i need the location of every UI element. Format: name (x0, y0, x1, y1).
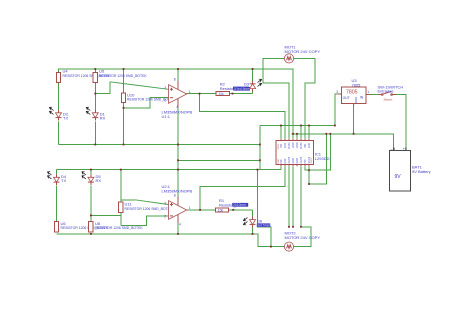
svg-text:IN2: IN2 (304, 144, 307, 149)
wire rail to D5 (90, 170, 92, 177)
wire node to op-amp U2 inverting input (121, 216, 169, 226)
wire D6 cathode to bottom rail (252, 227, 254, 234)
resistor R6 (54, 221, 109, 232)
svg-text:IN1: IN1 (280, 144, 283, 149)
wire R11 bottom column (120, 212, 122, 225)
LED D1 RX (86, 107, 105, 120)
svg-text:GND: GND (354, 97, 358, 103)
svg-text:1: 1 (367, 90, 369, 94)
svg-text:OUT: OUT (343, 96, 350, 100)
wire op-amp U1 V+ pin to rail (177, 69, 179, 81)
wire op-amp U2 V- down (177, 219, 179, 234)
svg-text:2: 2 (164, 214, 166, 218)
svg-text:Entradas: Entradas (378, 88, 394, 93)
svg-text:7805: 7805 (352, 82, 362, 87)
svg-text:U11: U11 (125, 201, 133, 206)
junction dots chip bottom (288, 169, 310, 227)
wire D5 to R8 (90, 185, 92, 221)
svg-text:U6: U6 (61, 221, 67, 226)
wire op-amp U2 output to D6 (187, 209, 253, 211)
svg-text:10k: 10k (219, 92, 225, 96)
svg-text:RESISTOR 1206 SMD_BOTEK: RESISTOR 1206 SMD_BOTEK (125, 207, 173, 211)
wire ground rail 2 (59, 144, 260, 146)
wire lower section top rail (57, 169, 282, 171)
wire D4 to R6 (56, 185, 58, 221)
svg-text:3: 3 (164, 201, 166, 205)
battery BAT1 9V (390, 147, 431, 191)
wire chip bottom left pin to left rail (280, 167, 282, 170)
wire R10 node to op-amp inverting input (124, 98, 169, 108)
svg-text:VCC1: VCC1 (278, 143, 280, 150)
svg-text:RESISTOR 1206 SMD_BOTEK: RESISTOR 1206 SMD_BOTEK (99, 74, 147, 78)
svg-text:2010mm: 2010mm (233, 203, 246, 207)
svg-text:led 5mm: led 5mm (237, 87, 250, 91)
wire MOT2 right staircase (294, 167, 312, 247)
junction dots op-amp U2 output (199, 209, 234, 211)
junction dots VCC bus (280, 125, 310, 127)
LED D5 RX (82, 172, 101, 185)
junction dots bottom rail (90, 233, 272, 248)
LED D4 TX (48, 172, 67, 185)
resistor R2 (216, 82, 249, 96)
svg-text:GND: GND (278, 159, 280, 164)
svg-text:VCC2: VCC2 (311, 157, 313, 164)
svg-text:OUT1: OUT1 (288, 142, 291, 149)
op-amp U1:1 (162, 78, 193, 119)
svg-text:TX: TX (61, 178, 66, 183)
svg-text:1: 1 (189, 206, 191, 210)
switch SW-1 (378, 84, 404, 101)
motor MOT2 (284, 230, 320, 251)
wire bottom rail (57, 234, 285, 247)
wire D3 cathode (252, 89, 254, 94)
svg-text:OUT3: OUT3 (300, 156, 303, 163)
svg-text:2: 2 (164, 99, 166, 103)
wire GND bus (292, 134, 394, 151)
svg-text:IN3: IN3 (304, 159, 307, 164)
wire switch to battery plus (396, 95, 406, 151)
svg-text:3: 3 (164, 86, 166, 90)
wire chip pin bottom center 2 (292, 167, 294, 227)
svg-text:OUT2: OUT2 (300, 142, 303, 149)
wire D3 anode to rail (252, 69, 254, 84)
resistor R1 (215, 198, 248, 212)
svg-text:RESISTOR 1206 SMD_BOTEK: RESISTOR 1206 SMD_BOTEK (127, 98, 175, 102)
svg-text:GND: GND (292, 142, 295, 148)
wire D1 to lower rail (94, 122, 96, 145)
resistor R5 (93, 69, 147, 83)
wire R4 to D2 (58, 83, 60, 113)
wire vertical to chip left (259, 126, 261, 170)
svg-text:MOTOR 24V COPY: MOTOR 24V COPY (285, 49, 321, 54)
LED D2 TX (50, 107, 69, 120)
svg-text:U1:1: U1:1 (162, 114, 171, 119)
svg-text:U8: U8 (95, 221, 101, 226)
svg-text:3: 3 (336, 90, 338, 94)
wire chip bottom pin loop outer (305, 134, 330, 170)
wire chip gnd pin stub (296, 134, 298, 139)
junction dots op-amp U1 inputs (94, 93, 233, 109)
svg-text:RX: RX (96, 178, 102, 183)
svg-text:D3: D3 (244, 81, 250, 86)
svg-text:8: 8 (174, 78, 176, 82)
svg-text:EN2: EN2 (308, 143, 311, 148)
svg-text:GND: GND (296, 142, 299, 148)
svg-text:RX: RX (100, 116, 106, 121)
wire sensor2 node link (91, 214, 121, 216)
wire mid rail (178, 159, 260, 161)
junction dots GND bus (292, 125, 354, 135)
wire chip bottom pin loop inner (309, 134, 326, 184)
svg-text:MOTOR 24V COPY: MOTOR 24V COPY (285, 235, 321, 240)
wire output feed to L293D IN1 (200, 94, 286, 139)
wire chip pin1 stub (280, 126, 282, 139)
svg-text:+: + (403, 147, 405, 151)
svg-text:OUT4: OUT4 (288, 156, 291, 163)
wire rail to R11 (120, 170, 122, 202)
svg-text:9V Battery: 9V Battery (412, 169, 431, 174)
svg-text:IN: IN (360, 95, 364, 99)
wire chip pin bottom center 1 (288, 167, 290, 227)
wire top supply rail net N$1 (59, 69, 294, 139)
LED D6 (244, 217, 271, 228)
svg-text:8: 8 (174, 194, 176, 198)
wire 7805 OUT lead (335, 93, 338, 95)
wire output feed to L293D IN3 (200, 167, 285, 210)
wire 7805 GND to bus (353, 107, 355, 134)
svg-text:10k: 10k (218, 208, 224, 212)
junction dots ground rail 2 (94, 144, 260, 162)
svg-text:led 5mm: led 5mm (258, 223, 271, 227)
motor MOT1 (284, 44, 320, 63)
svg-text:4: 4 (179, 223, 181, 227)
svg-text:Switch: Switch (384, 98, 393, 102)
voltage regulator U3 7805 (336, 78, 370, 107)
svg-text:1: 1 (189, 90, 191, 94)
wire rail to R10 (123, 69, 125, 93)
junction dots lower rail 3 (90, 169, 258, 217)
IC1 L293DD (276, 139, 330, 167)
wire sensor node to op-amp non-inverting input (95, 82, 110, 94)
svg-text:TX: TX (63, 116, 68, 121)
resistor R11 (119, 201, 173, 212)
wire R5 to D1 (94, 83, 96, 113)
wire D2 to lower rail (58, 122, 60, 145)
wire 7805 IN to switch (370, 94, 379, 96)
svg-text:7805: 7805 (346, 90, 358, 96)
op-amp U2:1 (162, 184, 193, 227)
junction dots top rail (94, 68, 253, 70)
wire MOT2 left staircase (258, 170, 271, 247)
svg-text:LM358MX/NOPB: LM358MX/NOPB (162, 188, 193, 193)
wire MOT1 right lead staircase (294, 58, 316, 138)
resistor R10 (121, 92, 175, 102)
svg-text:GND: GND (292, 158, 295, 164)
wire R10 bottom column (123, 102, 125, 144)
resistor R8 (89, 221, 144, 232)
svg-text:4: 4 (176, 105, 178, 109)
LED D3 (237, 79, 262, 91)
wire chip pin top stub vcc2 (308, 126, 310, 139)
svg-text:RESISTOR 1206 SMD_BOTEK: RESISTOR 1206 SMD_BOTEK (95, 226, 143, 230)
wire MOT1 left lead staircase (263, 58, 289, 138)
resistor R4 (56, 69, 111, 83)
svg-text:GND: GND (296, 158, 299, 164)
svg-text:EN2: EN2 (284, 158, 287, 163)
svg-text:IN4: IN4 (280, 159, 283, 164)
wire VCC bus above chip (260, 94, 338, 126)
svg-text:9V: 9V (395, 174, 402, 180)
svg-text:–: – (391, 147, 393, 151)
wire rail to D4 (56, 170, 58, 177)
wire op-amp U1 output to D3 (187, 93, 253, 95)
wire D6 anode stub (252, 210, 254, 219)
wire op-amp U1 V- pin down (177, 107, 179, 201)
svg-text:L293DD: L293DD (315, 156, 330, 161)
wire chip pin stub (300, 126, 302, 139)
wire R5 branch column (94, 69, 96, 73)
wire R11 node to op-amp U2 non-inverting input (121, 199, 135, 201)
svg-text:EN1: EN1 (284, 143, 287, 148)
